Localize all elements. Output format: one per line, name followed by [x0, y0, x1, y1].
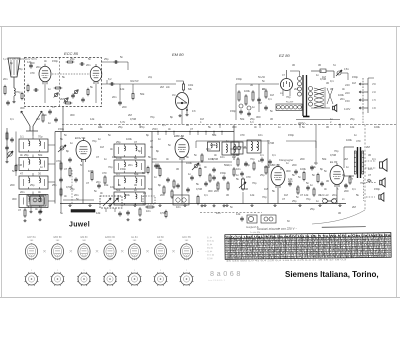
svg-text:0,1: 0,1 — [330, 79, 334, 83]
svg-text:0,5M: 0,5M — [160, 211, 167, 215]
svg-text:470: 470 — [240, 133, 245, 137]
svg-text:30: 30 — [330, 87, 333, 91]
svg-text:0,5M: 0,5M — [130, 117, 137, 121]
svg-text:100k: 100k — [210, 143, 216, 147]
svg-text:25p: 25p — [350, 117, 355, 121]
svg-text:100k: 100k — [310, 165, 316, 169]
svg-text:1n: 1n — [280, 167, 283, 171]
svg-text:10n: 10n — [258, 133, 263, 137]
svg-text:30: 30 — [186, 123, 189, 127]
svg-text:ECC 85: ECC 85 — [182, 236, 191, 239]
svg-text:0,1: 0,1 — [272, 153, 276, 157]
svg-text:EL 84: EL 84 — [330, 160, 338, 164]
svg-text:25p: 25p — [30, 183, 35, 187]
svg-text:3n: 3n — [168, 127, 171, 131]
svg-text:30: 30 — [250, 83, 253, 87]
svg-text:1: 1 — [57, 270, 58, 272]
svg-text:25p: 25p — [310, 207, 315, 211]
svg-text:5n: 5n — [296, 195, 299, 199]
svg-text:EABC 80: EABC 80 — [105, 236, 116, 239]
svg-text:20n: 20n — [288, 179, 293, 183]
svg-text:1M: 1M — [172, 94, 175, 97]
svg-text:100k: 100k — [186, 161, 192, 165]
svg-text:100k: 100k — [244, 89, 250, 93]
svg-text:ECH 81: ECH 81 — [207, 241, 215, 243]
svg-text:5n: 5n — [194, 153, 197, 157]
svg-text:5n: 5n — [76, 197, 79, 201]
svg-text:5n: 5n — [108, 133, 111, 137]
svg-text:1n: 1n — [158, 137, 161, 141]
svg-text:50+50: 50+50 — [258, 76, 266, 79]
svg-text:25p: 25p — [70, 57, 75, 61]
svg-text:Rs=3W: Rs=3W — [286, 102, 294, 104]
svg-text:ECH 81: ECH 81 — [27, 236, 36, 239]
svg-text:L21 L22: L21 L22 — [320, 194, 329, 197]
svg-text:0,1: 0,1 — [162, 123, 166, 127]
svg-text:ECC 85: ECC 85 — [64, 51, 79, 56]
svg-text:47: 47 — [96, 155, 99, 159]
svg-text:10n: 10n — [236, 167, 241, 171]
svg-text:0,5M: 0,5M — [240, 145, 247, 149]
svg-text:ECH 81: ECH 81 — [75, 136, 86, 140]
svg-text:50k: 50k — [224, 163, 229, 167]
svg-text:0,1: 0,1 — [228, 163, 232, 167]
svg-text:0,5M: 0,5M — [212, 157, 219, 161]
svg-text:3n: 3n — [110, 147, 113, 151]
svg-text:20n: 20n — [112, 95, 117, 99]
svg-text:3n: 3n — [64, 194, 67, 198]
svg-text:5n: 5n — [80, 163, 83, 167]
svg-text:1n: 1n — [278, 125, 281, 129]
svg-text:30: 30 — [338, 211, 341, 215]
svg-text:70p: 70p — [38, 135, 43, 139]
svg-text:470: 470 — [356, 139, 361, 143]
svg-text:200: 200 — [292, 163, 297, 167]
svg-text:47: 47 — [18, 208, 21, 212]
svg-text:EZ 80: EZ 80 — [207, 258, 213, 260]
svg-text:3n: 3n — [38, 190, 41, 194]
svg-text:30k/7W: 30k/7W — [130, 80, 139, 83]
svg-text:150p: 150p — [220, 171, 226, 175]
svg-text:EABC 80: EABC 80 — [268, 163, 280, 167]
svg-text:3n: 3n — [150, 145, 153, 149]
svg-text:70p: 70p — [150, 115, 155, 119]
svg-text:150p: 150p — [120, 167, 126, 171]
svg-text:300: 300 — [12, 197, 17, 201]
svg-text:1n: 1n — [143, 191, 146, 195]
svg-text:20n: 20n — [128, 163, 133, 167]
svg-text:70p: 70p — [306, 197, 311, 201]
svg-text:12k: 12k — [120, 87, 125, 91]
svg-text:10n: 10n — [176, 205, 181, 209]
svg-text:47: 47 — [150, 139, 153, 143]
svg-text:10n: 10n — [206, 147, 211, 151]
svg-text:EZ 80: EZ 80 — [157, 236, 164, 239]
svg-text:5n: 5n — [12, 169, 15, 173]
svg-text:30: 30 — [326, 125, 329, 129]
svg-text:1n: 1n — [330, 117, 333, 121]
svg-text:50k: 50k — [322, 157, 327, 161]
svg-text:150p: 150p — [230, 109, 236, 113]
svg-text:70p: 70p — [16, 90, 21, 94]
svg-text:0,5M: 0,5M — [242, 187, 249, 191]
svg-text:3n: 3n — [198, 163, 201, 167]
svg-text:30: 30 — [326, 179, 329, 183]
svg-text:10n: 10n — [220, 155, 225, 159]
svg-text:47: 47 — [86, 181, 89, 185]
svg-text:1n: 1n — [258, 159, 261, 163]
svg-text:EM 80: EM 80 — [172, 52, 184, 57]
svg-text:5n: 5n — [302, 125, 305, 129]
svg-text:47n: 47n — [192, 110, 197, 113]
svg-text:210: 210 — [372, 91, 377, 94]
svg-text:EL 84: EL 84 — [207, 244, 213, 246]
svg-text:12k: 12k — [250, 193, 255, 197]
svg-text:47: 47 — [344, 183, 347, 187]
svg-text:5n: 5n — [230, 205, 233, 209]
svg-text:8,2: 8,2 — [108, 78, 112, 81]
svg-text:1n: 1n — [354, 133, 357, 137]
svg-text:5n: 5n — [64, 133, 67, 137]
svg-text:47: 47 — [64, 167, 67, 171]
svg-text:300: 300 — [256, 115, 261, 119]
svg-text:20n: 20n — [96, 180, 101, 184]
svg-text:150: 150 — [345, 99, 350, 103]
svg-text:100k: 100k — [116, 156, 122, 160]
svg-text:25p: 25p — [24, 153, 29, 157]
svg-text:70p: 70p — [360, 181, 365, 185]
svg-text:30: 30 — [326, 81, 329, 85]
svg-text:70p: 70p — [252, 181, 257, 185]
svg-text:8 a 0 6 8: 8 a 0 6 8 — [210, 269, 241, 278]
svg-text:200: 200 — [30, 61, 35, 65]
svg-text:20n: 20n — [214, 189, 219, 193]
svg-text:10n: 10n — [146, 209, 151, 213]
svg-text:1n: 1n — [316, 73, 319, 77]
svg-text:1n: 1n — [188, 172, 191, 176]
svg-text:20n: 20n — [262, 87, 267, 91]
svg-text:1n: 1n — [236, 173, 239, 177]
svg-text:50k: 50k — [38, 153, 43, 157]
svg-text:47: 47 — [282, 197, 285, 201]
svg-text:100k: 100k — [124, 193, 130, 197]
svg-text:8p: 8p — [320, 167, 323, 171]
svg-text:1n: 1n — [226, 139, 229, 143]
svg-text:300: 300 — [232, 125, 237, 129]
svg-text:0,1: 0,1 — [268, 97, 272, 101]
svg-text:47: 47 — [190, 127, 193, 131]
svg-text:25p: 25p — [18, 67, 23, 71]
svg-text:f = ca. 4%: f = ca. 4% — [250, 232, 260, 234]
svg-text:20n: 20n — [340, 97, 345, 101]
svg-text:70p: 70p — [286, 95, 291, 99]
svg-text:150p: 150p — [236, 77, 242, 81]
svg-text:200: 200 — [160, 193, 165, 197]
svg-text:20n: 20n — [36, 65, 41, 69]
svg-text:0,5M: 0,5M — [268, 141, 275, 145]
svg-text:12k: 12k — [350, 125, 355, 129]
svg-text:30: 30 — [176, 167, 179, 171]
svg-text:47: 47 — [350, 177, 353, 181]
svg-text:EL 84: EL 84 — [207, 237, 213, 239]
svg-text:3n: 3n — [254, 125, 257, 129]
svg-text:47: 47 — [300, 193, 303, 197]
svg-text:100k: 100k — [188, 84, 194, 87]
svg-text:1: 1 — [84, 270, 85, 272]
svg-text:150p: 150p — [374, 187, 380, 191]
svg-text:EBF 89: EBF 89 — [54, 236, 63, 239]
svg-text:1n: 1n — [316, 199, 319, 203]
svg-text:0,1: 0,1 — [368, 179, 372, 183]
svg-text:25p: 25p — [250, 117, 255, 121]
svg-text:Juwel: Juwel — [69, 222, 90, 229]
svg-text:1n: 1n — [310, 183, 313, 187]
svg-text:470: 470 — [30, 71, 35, 75]
svg-text:200: 200 — [122, 105, 127, 109]
svg-text:300: 300 — [70, 113, 75, 117]
svg-text:220: 220 — [345, 91, 350, 95]
svg-text:6,3: 6,3 — [250, 121, 254, 124]
svg-text:1: 1 — [160, 270, 161, 272]
svg-text:300: 300 — [20, 106, 25, 110]
svg-text:200: 200 — [10, 183, 15, 187]
svg-text:150p: 150p — [52, 59, 58, 63]
svg-text:1n: 1n — [48, 87, 51, 91]
svg-text:47: 47 — [368, 173, 371, 177]
svg-text:470: 470 — [152, 157, 157, 161]
svg-text:150p: 150p — [244, 163, 250, 167]
svg-text:12k: 12k — [304, 193, 309, 197]
svg-text:5n: 5n — [312, 173, 315, 177]
svg-text:3n: 3n — [214, 153, 217, 157]
svg-text:200: 200 — [300, 157, 305, 161]
svg-text:300: 300 — [286, 169, 291, 173]
svg-text:300: 300 — [208, 189, 213, 193]
svg-text:5n: 5n — [94, 189, 97, 193]
svg-text:100k: 100k — [346, 138, 352, 142]
svg-text:8p: 8p — [296, 187, 299, 191]
svg-text:110V: 110V — [344, 107, 350, 111]
svg-text:220V~: 220V~ — [298, 121, 307, 125]
svg-text:3n: 3n — [20, 153, 23, 157]
svg-text:6,3V: 6,3V — [120, 121, 125, 124]
svg-text:EL 84: EL 84 — [207, 251, 213, 253]
svg-text:3n: 3n — [342, 87, 345, 91]
svg-text:0,1: 0,1 — [260, 153, 264, 157]
svg-text:5n: 5n — [270, 109, 273, 113]
svg-text:5n: 5n — [306, 181, 309, 185]
svg-text:50k: 50k — [240, 117, 245, 121]
svg-text:20n: 20n — [332, 193, 337, 197]
svg-text:25p: 25p — [118, 125, 123, 129]
svg-text:70p: 70p — [334, 149, 339, 153]
svg-text:8p: 8p — [170, 115, 173, 119]
svg-text:50k: 50k — [140, 92, 145, 96]
svg-text:12k: 12k — [90, 117, 95, 121]
svg-text:1n: 1n — [98, 137, 101, 141]
svg-text:3n: 3n — [44, 59, 47, 63]
svg-text:5n: 5n — [88, 57, 91, 61]
svg-text:20n: 20n — [20, 190, 25, 194]
svg-text:5n: 5n — [168, 143, 171, 147]
svg-text:70p: 70p — [140, 125, 145, 129]
svg-text:12k: 12k — [96, 211, 101, 215]
svg-text:8p: 8p — [66, 149, 69, 153]
svg-text:30: 30 — [270, 117, 273, 121]
svg-text:3n: 3n — [324, 187, 327, 191]
svg-text:30: 30 — [226, 193, 229, 197]
svg-text:5n: 5n — [298, 175, 301, 179]
svg-text:70p: 70p — [108, 165, 113, 169]
svg-text:100k: 100k — [338, 93, 344, 97]
svg-text:30: 30 — [318, 63, 321, 67]
svg-text:t.a.v. 3 0 4 6 8 - 1: t.a.v. 3 0 4 6 8 - 1 — [208, 279, 226, 282]
svg-text:1n: 1n — [134, 188, 137, 192]
svg-text:12k: 12k — [112, 155, 117, 159]
svg-text:Tensioni misurate con 220 V ~: Tensioni misurate con 220 V ~ — [257, 227, 298, 231]
svg-text:170: 170 — [372, 99, 377, 102]
svg-text:1n: 1n — [104, 157, 107, 161]
svg-text:240: 240 — [345, 83, 350, 87]
svg-text:100k: 100k — [374, 125, 380, 129]
svg-text:20n: 20n — [74, 193, 79, 197]
svg-text:1n: 1n — [40, 165, 43, 169]
svg-text:10n: 10n — [110, 185, 115, 189]
svg-text:25p: 25p — [70, 187, 75, 191]
svg-text:0,5M: 0,5M — [330, 153, 337, 157]
svg-text:30: 30 — [292, 63, 295, 67]
svg-text:ECC 85: ECC 85 — [207, 255, 215, 257]
svg-text:0,1: 0,1 — [20, 135, 24, 139]
svg-text:1: 1 — [31, 270, 32, 272]
svg-text:8p: 8p — [138, 149, 141, 153]
svg-text:47: 47 — [20, 172, 23, 176]
svg-text:5n: 5n — [262, 79, 265, 83]
svg-text:30: 30 — [134, 183, 137, 187]
svg-text:50k: 50k — [212, 133, 217, 137]
svg-text:150p: 150p — [352, 75, 358, 79]
svg-text:470: 470 — [56, 159, 61, 163]
svg-text:250: 250 — [372, 83, 377, 86]
svg-text:100k: 100k — [300, 167, 306, 171]
svg-text:100k: 100k — [88, 169, 94, 173]
svg-text:3n: 3n — [216, 183, 219, 187]
svg-text:25p: 25p — [292, 199, 297, 203]
svg-text:3n: 3n — [204, 165, 207, 169]
svg-text:1n: 1n — [252, 105, 255, 109]
svg-text:3n: 3n — [342, 173, 345, 177]
svg-text:470: 470 — [102, 171, 107, 175]
svg-text:3n: 3n — [44, 113, 47, 117]
svg-text:12k: 12k — [104, 183, 109, 187]
svg-text:30: 30 — [368, 153, 371, 157]
svg-text:12k: 12k — [98, 125, 103, 129]
svg-text:47: 47 — [134, 140, 137, 144]
svg-text:12k: 12k — [236, 212, 241, 216]
svg-text:0,5M: 0,5M — [16, 163, 23, 167]
svg-text:47: 47 — [52, 105, 55, 109]
svg-text:EL 84: EL 84 — [131, 236, 138, 239]
svg-text:47: 47 — [256, 145, 259, 149]
svg-text:100k: 100k — [126, 137, 132, 141]
svg-text:20n: 20n — [86, 63, 91, 67]
svg-text:5n: 5n — [120, 55, 123, 59]
svg-text:25p: 25p — [104, 57, 109, 61]
svg-text:22n: 22n — [166, 86, 171, 89]
svg-text:5n: 5n — [324, 169, 327, 173]
svg-text:0,1: 0,1 — [204, 193, 208, 197]
svg-text:25p: 25p — [52, 183, 57, 187]
svg-text:50k: 50k — [148, 187, 153, 191]
svg-text:25p: 25p — [116, 140, 121, 144]
svg-text:150p: 150p — [58, 127, 64, 131]
svg-text:1: 1 — [110, 270, 111, 272]
svg-text:10n: 10n — [230, 147, 235, 151]
svg-text:150p: 150p — [288, 133, 294, 137]
svg-text:10n: 10n — [216, 211, 221, 215]
svg-text:1n: 1n — [70, 141, 73, 145]
svg-text:70p: 70p — [250, 157, 255, 161]
svg-text:0,1: 0,1 — [10, 117, 14, 121]
svg-text:3n: 3n — [166, 157, 169, 161]
svg-text:0,1: 0,1 — [116, 172, 120, 176]
svg-text:0,5A: 0,5A — [344, 68, 349, 71]
svg-text:EBF 89: EBF 89 — [174, 134, 184, 138]
svg-text:250V: 250V — [152, 128, 158, 131]
svg-text:1n: 1n — [286, 161, 289, 165]
svg-text:~: ~ — [197, 249, 199, 253]
svg-text:200: 200 — [344, 189, 349, 193]
svg-text:8p: 8p — [10, 61, 13, 65]
svg-text:8p: 8p — [146, 133, 149, 137]
svg-text:30: 30 — [38, 172, 41, 176]
svg-text:25p: 25p — [260, 173, 265, 177]
svg-text:EM 80: EM 80 — [207, 248, 214, 250]
svg-text:30: 30 — [80, 127, 83, 131]
svg-text:20n: 20n — [3, 77, 8, 81]
svg-text:50k: 50k — [134, 172, 139, 176]
svg-text:0,5M: 0,5M — [320, 77, 327, 81]
svg-text:130: 130 — [372, 107, 377, 110]
svg-text:3n: 3n — [35, 207, 38, 211]
svg-text:EM 80: EM 80 — [81, 236, 89, 239]
svg-text:0,1: 0,1 — [372, 157, 376, 161]
svg-text:EZ 80: EZ 80 — [279, 53, 290, 58]
svg-text:0,5M: 0,5M — [196, 187, 203, 191]
svg-text:8p: 8p — [156, 149, 159, 153]
svg-text:1: 1 — [134, 270, 135, 272]
svg-text:3n: 3n — [100, 191, 103, 195]
svg-text:70p: 70p — [92, 139, 97, 143]
svg-text:1: 1 — [186, 270, 187, 272]
svg-text:20p: 20p — [148, 76, 153, 79]
svg-text:10n: 10n — [368, 167, 373, 171]
svg-text:1n: 1n — [48, 121, 51, 125]
svg-text:Siemens Italiana, Torino,: Siemens Italiana, Torino, — [285, 270, 379, 279]
svg-text:0,1: 0,1 — [352, 187, 356, 191]
svg-text:8p: 8p — [158, 183, 161, 187]
svg-text:1n: 1n — [346, 165, 349, 169]
svg-text:1n: 1n — [154, 175, 157, 179]
svg-text:70p: 70p — [262, 195, 267, 199]
svg-text:470: 470 — [246, 175, 251, 179]
svg-text:50k: 50k — [116, 188, 121, 192]
